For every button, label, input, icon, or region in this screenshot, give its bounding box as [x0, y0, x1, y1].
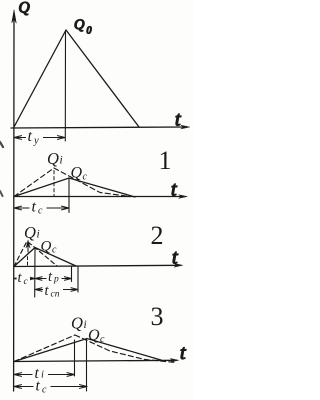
svg-text:Q: Q [41, 239, 52, 255]
panel1 label Qi [47, 149, 63, 168]
panel1 dashed peak dropline [53, 171, 55, 197]
panel3 dimension tc line [14, 385, 87, 389]
svg-text:сп: сп [51, 290, 60, 300]
panel2 dashed dropline under Qi arrow [27, 254, 29, 265]
panel2 label Qc [41, 239, 58, 256]
panel1 t-axis arrowhead [179, 195, 187, 199]
panel2 dashed hydrograph falling limb [28, 242, 57, 266]
panel1 dimension tc line [14, 206, 69, 210]
panel3 dashed hydrograph falling limb [75, 335, 176, 363]
svg-text:t: t [172, 247, 178, 269]
label ty [26, 128, 43, 147]
panel0 dimension ty line [14, 136, 65, 140]
panel3 solid peak dropline [86, 339, 88, 391]
panel1 label tc [30, 199, 47, 217]
svg-text:Q: Q [74, 17, 85, 33]
scan mark left edge upper [0, 142, 3, 147]
panel0 hydrograph falling limb [66, 30, 139, 127]
panel0 t-axis arrowhead [181, 125, 190, 129]
panel3 label Qc [88, 327, 105, 345]
panel2 dimension tc line [14, 277, 35, 281]
panel2 dimension tp line [35, 277, 72, 281]
panel1 solid hydrograph [14, 178, 135, 197]
svg-text:i: i [60, 155, 63, 167]
svg-text:Q: Q [71, 314, 83, 333]
panel2 dropline tcn end [77, 266, 79, 292]
svg-text:3: 3 [151, 302, 164, 331]
panel2 dashed hydrograph rising limb [14, 241, 27, 267]
svg-text:p: p [53, 275, 59, 285]
panel2 label tp [47, 269, 62, 285]
panel1 label Qc [71, 165, 88, 183]
panel3 solid hydrograph [14, 339, 161, 362]
panel2 dropline tp end [71, 266, 73, 282]
svg-text:t: t [175, 109, 181, 131]
panel2 label tc [17, 270, 31, 287]
panel2 t-axis [14, 265, 180, 266]
svg-text:t: t [171, 179, 177, 201]
panel2 label tcn [43, 283, 63, 300]
svg-text:t: t [32, 199, 37, 216]
Q-axis arrowhead [12, 10, 17, 23]
panel2 label Qi [24, 223, 40, 242]
panel3 dimension ti line [14, 373, 75, 377]
panel2 solid peak dropline [34, 248, 36, 298]
panel2 solid hydrograph [14, 248, 76, 267]
panel1 dashed hydrograph rising limb [14, 168, 54, 197]
svg-text:c: c [83, 172, 88, 183]
panel3 dashed hydrograph rising limb [14, 335, 75, 362]
panel3 t-axis arrowhead [170, 359, 178, 363]
panel1 solid peak dropline [68, 178, 70, 213]
panel3 label Qi [71, 314, 87, 333]
svg-text:Q: Q [88, 327, 100, 344]
panel3 t-axis [14, 360, 176, 361]
svg-text:i: i [37, 229, 40, 241]
svg-text:t: t [36, 378, 41, 395]
svg-text:Q: Q [24, 223, 36, 242]
svg-text:c: c [42, 385, 47, 396]
panel2 Qi pointer arrow (up) [27, 243, 29, 252]
panel3 label ti [33, 365, 49, 382]
panel3 label tc [34, 378, 51, 396]
svg-text:c: c [100, 334, 105, 345]
svg-text:1: 1 [159, 146, 172, 175]
svg-text:0: 0 [87, 26, 92, 37]
svg-text:c: c [52, 245, 57, 256]
svg-text:t: t [28, 128, 33, 145]
Q axis (common left vertical) [13, 13, 15, 391]
scan mark left edge lower [0, 191, 3, 196]
panel1 dashed hydrograph falling limb [54, 168, 130, 197]
panel2 dimension tcn line [35, 288, 78, 292]
panel0 peak dropline [64, 31, 66, 141]
svg-text:Q: Q [19, 0, 30, 17]
panel2 t-axis arrowhead [174, 264, 182, 268]
svg-text:Q: Q [47, 149, 59, 168]
panel3 dashed peak dropline [74, 340, 76, 376]
svg-text:t: t [180, 342, 186, 364]
panel0 t-axis [11, 127, 186, 128]
svg-text:c: c [38, 206, 43, 217]
svg-text:i: i [84, 319, 87, 331]
svg-text:y: y [33, 136, 39, 147]
panel0 hydrograph rising limb [14, 30, 66, 127]
svg-text:2: 2 [151, 221, 164, 250]
svg-text:Q: Q [71, 165, 83, 182]
svg-text:i: i [41, 370, 44, 381]
panel1 t-axis [14, 196, 184, 198]
